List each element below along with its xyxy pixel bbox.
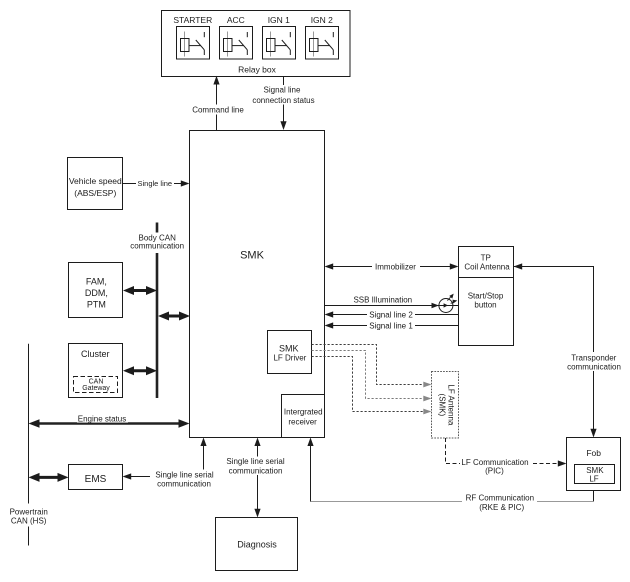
svg-text:Vehicle speed: Vehicle speed xyxy=(69,176,122,186)
svg-text:Single line serial: Single line serial xyxy=(226,457,284,466)
immobilizer arrow xyxy=(325,262,459,272)
LF antenna box xyxy=(432,372,459,439)
cluster box xyxy=(69,344,123,398)
double arrow cluster-bus xyxy=(123,366,157,375)
svg-text:SMK: SMK xyxy=(586,466,604,475)
LF driver line 2 xyxy=(312,351,429,399)
single line (vehicle speed to SMK) xyxy=(123,179,190,188)
fob box xyxy=(567,438,621,491)
svg-text:LF Antenna: LF Antenna xyxy=(447,384,456,425)
svg-text:button: button xyxy=(474,300,496,309)
relay STARTER xyxy=(177,27,210,60)
svg-text:Single line serial: Single line serial xyxy=(155,470,213,479)
signal line 1 xyxy=(325,321,459,330)
svg-text:communication: communication xyxy=(567,362,621,371)
svg-text:communication: communication xyxy=(157,480,211,489)
RF communication line xyxy=(307,438,593,513)
svg-text:(ABS/ESP): (ABS/ESP) xyxy=(74,188,116,198)
FAM DDM PTM label xyxy=(85,277,108,310)
fob SMK LF inner box xyxy=(575,465,615,484)
relay IGN 1 xyxy=(263,27,296,60)
vehicle speed box xyxy=(68,158,123,210)
svg-text:Coil Antenna: Coil Antenna xyxy=(464,262,510,271)
svg-text:communication: communication xyxy=(229,467,283,476)
fob SMK LF label xyxy=(586,466,604,484)
svg-text:Transponder: Transponder xyxy=(571,353,616,362)
SMK LF driver box xyxy=(268,331,312,374)
FAM DDM PTM box xyxy=(69,263,123,318)
double arrow bus-SMK xyxy=(158,312,190,321)
powertrain CAN line xyxy=(28,344,30,546)
svg-text:TP: TP xyxy=(481,254,491,263)
single line serial communication (SMK to diagnosis) xyxy=(225,438,287,518)
svg-text:Fob: Fob xyxy=(586,448,601,458)
svg-text:CAN (HS): CAN (HS) xyxy=(11,517,47,526)
powertrain label xyxy=(10,508,48,526)
body CAN label xyxy=(130,233,184,250)
svg-text:ACC: ACC xyxy=(227,15,245,25)
SMK box xyxy=(190,131,325,438)
svg-text:receiver: receiver xyxy=(288,417,317,426)
integrated receiver box xyxy=(282,395,325,438)
LED arrows xyxy=(447,294,457,304)
svg-text:RF Communication: RF Communication xyxy=(466,494,534,503)
diagnosis box xyxy=(216,518,298,571)
CAN gateway dashed box xyxy=(74,377,118,393)
svg-text:FAM,: FAM, xyxy=(86,277,107,287)
svg-text:STARTER: STARTER xyxy=(173,15,212,25)
command line xyxy=(191,76,245,130)
integrated receiver label xyxy=(284,407,323,426)
LF antenna label (rotated) xyxy=(437,384,455,425)
svg-text:Signal line 1: Signal line 1 xyxy=(369,322,413,331)
svg-text:IGN 2: IGN 2 xyxy=(311,15,333,25)
TP coil antenna box xyxy=(459,247,514,346)
svg-text:Relay box: Relay box xyxy=(238,65,277,75)
svg-text:(SMK): (SMK) xyxy=(437,394,446,417)
double arrow powertrain-EMS xyxy=(29,473,69,482)
relay box xyxy=(162,11,351,77)
body CAN bus xyxy=(156,223,159,399)
svg-text:PTM: PTM xyxy=(87,300,106,310)
svg-text:Single line: Single line xyxy=(137,179,172,188)
svg-text:Powertrain: Powertrain xyxy=(10,508,48,517)
signal line 2 xyxy=(325,310,459,319)
EMS box xyxy=(69,465,123,490)
start stop button divider xyxy=(459,277,514,279)
relay ACC xyxy=(220,27,253,60)
svg-text:SMK: SMK xyxy=(240,250,265,262)
LED circle xyxy=(439,299,453,313)
svg-text:Signal line: Signal line xyxy=(264,85,301,94)
LF driver line 3 xyxy=(312,357,429,412)
svg-text:SMK: SMK xyxy=(279,343,299,353)
svg-text:LF Driver: LF Driver xyxy=(273,354,306,363)
SSB illumination line xyxy=(325,295,459,308)
LF driver line 1 xyxy=(312,345,429,385)
svg-text:Diagnosis: Diagnosis xyxy=(237,540,277,550)
start stop button label xyxy=(468,292,504,310)
svg-text:Engine status: Engine status xyxy=(78,414,126,423)
double arrow FAM-bus xyxy=(123,286,157,295)
TP coil antenna label xyxy=(464,254,510,272)
svg-text:EMS: EMS xyxy=(85,474,107,485)
svg-text:Intergrated: Intergrated xyxy=(284,407,323,416)
vehicle speed label xyxy=(69,176,122,198)
svg-text:IGN 1: IGN 1 xyxy=(268,15,290,25)
svg-text:(RKE & PIC): (RKE & PIC) xyxy=(479,503,524,512)
svg-text:Gateway: Gateway xyxy=(82,385,110,392)
svg-text:Cluster: Cluster xyxy=(81,349,110,359)
svg-text:connection status: connection status xyxy=(252,96,314,105)
svg-text:Signal line 2: Signal line 2 xyxy=(369,310,413,319)
svg-text:communication: communication xyxy=(130,241,184,250)
CAN gateway label xyxy=(82,378,110,392)
engine status arrow xyxy=(29,414,190,428)
svg-text:SSB Illumination: SSB Illumination xyxy=(353,295,412,304)
svg-text:(PIC): (PIC) xyxy=(485,466,504,475)
relay IGN 2 xyxy=(306,27,339,60)
svg-text:Immobilizer: Immobilizer xyxy=(375,263,416,272)
transponder line xyxy=(514,263,625,437)
LF communication dashed line xyxy=(446,438,567,475)
single line serial communication (EMS to SMK) xyxy=(123,438,217,489)
SMK LF driver label xyxy=(273,343,306,362)
svg-text:LF: LF xyxy=(589,475,598,484)
svg-text:Command line: Command line xyxy=(192,106,244,115)
relay labels xyxy=(173,15,333,25)
svg-text:DDM,: DDM, xyxy=(85,288,108,298)
signal line connection status xyxy=(252,77,315,131)
